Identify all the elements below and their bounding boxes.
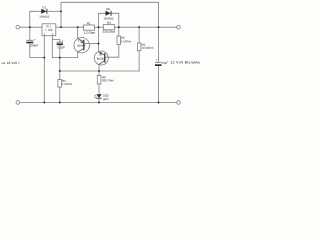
resistor R2 [58,79,62,87]
wire T2 base [105,45,119,58]
wire T2 collector [98,64,100,71]
capacitor C1 plates [26,39,33,42]
label output [170,61,200,64]
junction dot n7 [138,26,140,28]
plus C1 [34,39,35,40]
terminal IN- [16,101,20,105]
label LED [103,95,108,97]
wire D2 right vertical [111,13,119,27]
plus C2 [62,40,63,41]
LED [96,94,102,98]
wire node to T1 collector [52,52,77,58]
wire D1 anode branch [30,11,42,27]
terminal OUT+ [177,25,181,29]
wire bottom rail [20,102,177,104]
wire R2 to bottom rail [59,87,61,102]
junction dot n13 [98,70,100,72]
label R5 [142,44,145,46]
wire C2 top bend [52,40,60,43]
wire rail box-out to R1 [56,26,84,28]
transistor T1 circle [74,38,89,53]
junction dot n8 [158,26,160,28]
wire C3 branch [158,27,160,62]
pin number 3 [52,34,53,36]
T1 emitter/collector diagonals [78,38,84,52]
junction dot n14 [43,102,45,104]
label R3 [121,37,124,39]
label R4 [107,22,110,24]
junction dot n16 [98,102,100,104]
wire LED to bottom rail [98,98,100,102]
terminal OUT- [177,101,181,105]
capacitor C2 plates [57,41,63,44]
LED light arrows [94,95,96,98]
T2 base bar [104,53,106,62]
label R2 [62,80,65,82]
junction dot n5 [98,26,100,28]
wire C1 branch [29,27,31,40]
label T2 [99,54,102,56]
junction dot n12 [59,70,61,72]
wire C3 to bottom rail [158,66,160,103]
label T1 [78,40,81,42]
T2 emitter arrow [100,52,103,55]
resistor R3 [117,36,121,45]
wire D1 cathode branch [47,10,61,12]
wire box pin A down [43,36,45,103]
wire R6 branch [98,71,100,94]
diode D2 [106,11,111,16]
label C3 [162,62,168,65]
wire collector rail [60,70,139,72]
wire input rail [20,26,42,28]
wire R5 bottom [138,51,140,71]
wire R3 top [118,27,120,36]
IC1 regulator box [42,24,56,36]
T1 base bar [83,40,85,50]
resistor R5 [137,43,141,51]
resistor R6 [97,76,101,85]
junction dot n9 [98,43,100,45]
transistor T2 circle [94,51,108,65]
wire D2 left vertical [99,13,106,27]
label D1 [43,6,46,8]
junction dot n3 [60,26,62,28]
label IC1 line1 [47,25,52,27]
label C2 [57,46,64,49]
junction dot n15 [59,102,61,104]
wire box pin B down [51,36,53,58]
capacitor C3 plates [155,61,162,64]
resistor R4 [103,25,114,30]
label input [2,62,20,64]
wire R2 branch [59,71,61,79]
wire T1 base to node [84,43,99,45]
wire T1 emitter [77,27,79,38]
wire top rail [61,2,159,27]
wire output to terminal [159,26,177,28]
junction dot n11 [59,57,61,59]
junction dot n6 [118,26,120,28]
wire C2 bottom [59,45,61,71]
junction dot n2 [60,10,62,12]
label R1 [87,22,90,24]
diode D1 [41,9,46,14]
plus C3 [156,59,157,60]
label R6 [102,76,105,78]
junction dot n4 [77,26,79,28]
wire R5 top [138,27,140,43]
label C1 [30,44,38,47]
label D2 [107,8,110,10]
terminal IN+ [16,25,20,29]
wire rail R1 to R4 [95,26,104,28]
wire rail R4 to corner [115,26,159,28]
wire C1 to gnd node [30,43,45,57]
T2 emitter/collector diagonals [99,52,105,65]
wire base node vertical [98,27,100,52]
label IC1 line2 [46,29,53,31]
T1 emitter arrow [81,42,84,44]
junction dot n1 [29,26,31,28]
junction dot n17 [158,102,160,104]
pin number 2 [44,34,45,36]
resistor R1 [84,25,95,30]
junction dot n10 [43,57,45,59]
